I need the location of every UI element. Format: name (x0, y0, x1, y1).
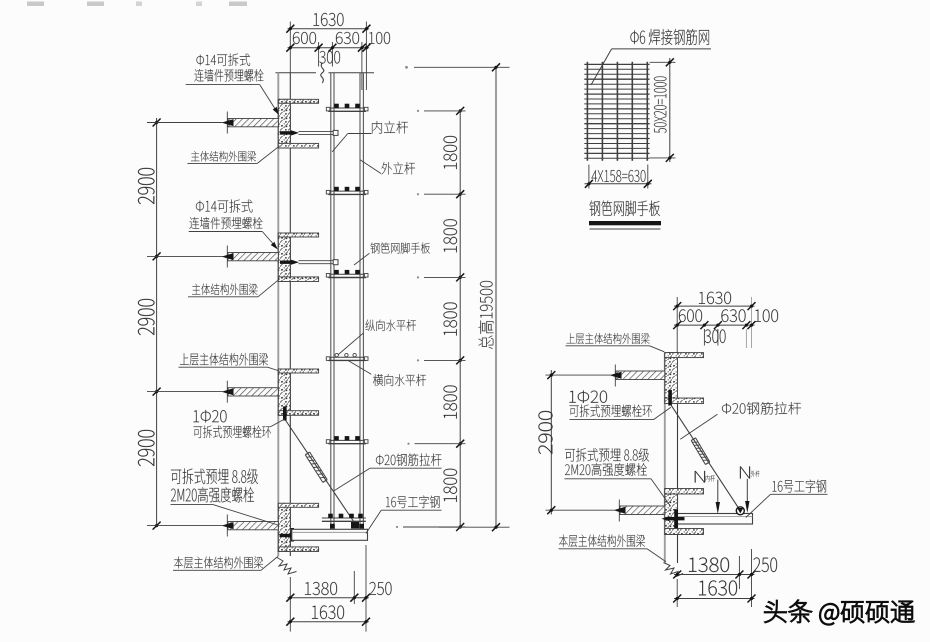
phi14 tie bolt level 2 (280, 261, 293, 264)
dim text 1630 bottom (312, 606, 344, 619)
label 16 I-beam (386, 496, 440, 508)
rd label upper beam (567, 333, 650, 344)
beam bottom flange level 1 (278, 143, 318, 148)
rd label 16 I-beam (772, 480, 826, 493)
right dim tick (456, 440, 464, 448)
label main beam L2 (192, 283, 257, 295)
beam block level 1 (278, 99, 290, 148)
rod anchor block (351, 522, 359, 529)
dim text 1800 #5 (444, 469, 457, 502)
right dim line 1800s (459, 111, 461, 527)
rd rod anchor (736, 507, 744, 515)
beam top flange level 1 (278, 99, 318, 103)
rd dim text 1380 (689, 558, 729, 572)
wall inner line (277, 73, 279, 557)
scaffold board row 5 (328, 439, 366, 441)
floor slab level 2 (228, 253, 278, 261)
label longitudinal ledger (366, 320, 417, 332)
right dim tick (456, 356, 464, 364)
dim text 250 left (370, 582, 392, 595)
rd label phi20 rod (722, 402, 801, 414)
label upper main beam (180, 353, 268, 365)
rd dim line 1380/250 (674, 574, 755, 576)
left dim tick (153, 119, 161, 127)
total height dim line (495, 67, 497, 527)
phi20 diagonal tie rod (286, 421, 356, 526)
dim text 1380 (305, 582, 337, 595)
floor slab level 4 (228, 522, 278, 530)
rd embedded ring (668, 390, 672, 406)
scaffold board row 2 (328, 190, 366, 192)
left dim tick (153, 252, 161, 260)
rd dim line 1630 top (674, 305, 755, 307)
rd dim text 250 (753, 558, 776, 572)
rd dim text 1630 top (699, 292, 731, 304)
right dim tick (456, 107, 464, 115)
right dim tick (456, 523, 464, 531)
label phi20 rod (376, 453, 442, 465)
label steel mesh board (371, 242, 430, 253)
rd wall lines (664, 353, 666, 564)
rd upper beam top flange (665, 353, 704, 358)
dim line 1380/250 (288, 597, 369, 599)
dim text 1800 #4 (444, 386, 457, 419)
floor slab level 3 (228, 388, 278, 396)
label phi14 removable L1 (197, 54, 251, 66)
dim text 2900 b (138, 299, 154, 335)
load arrow N inner (717, 480, 719, 503)
mesh title leader (612, 48, 711, 50)
dim text 50X20=1000 (654, 76, 666, 133)
rd dim text 300 (705, 330, 726, 343)
mesh caption (589, 201, 659, 216)
mesh right dim (650, 61, 676, 63)
label 1 phi20 ring (194, 410, 227, 423)
beam block level 4 (278, 503, 290, 551)
label inner pole (372, 121, 408, 133)
beam bottom flange level 4 (278, 547, 318, 552)
rd top dim ext lines (676, 297, 678, 353)
dim text 630 (336, 32, 359, 44)
rd left dim 2900 (550, 370, 552, 515)
rd upper slab (616, 371, 665, 380)
wall face line (289, 73, 291, 556)
wall break squiggle (277, 558, 297, 575)
label this floor beam (174, 557, 263, 569)
dim text 1800 #3 (444, 303, 457, 336)
bottom platform board on I-beam (322, 517, 366, 519)
label transverse ledger (373, 374, 426, 386)
beam top flange level 4 (278, 503, 318, 507)
M20 bolt to I-beam (280, 534, 292, 537)
scaffold board row 1 (328, 107, 366, 109)
left dim tick (153, 522, 161, 530)
rd dim line 1630 bottom (674, 598, 755, 600)
rd lower beam block (665, 489, 678, 535)
rd label this floor beam (559, 535, 645, 547)
top break line (276, 72, 317, 74)
rd dim line 600/300/630/100 (674, 324, 755, 326)
watermark toutiao (765, 600, 914, 625)
label phi14 removable L2 (196, 199, 252, 212)
rd lower slab (620, 506, 665, 515)
beam bottom flange level 2 (278, 277, 318, 282)
rd wall squiggle (664, 563, 684, 578)
dim line 600/300/630/100 (288, 47, 370, 49)
turnbuckle on rod (305, 455, 323, 483)
welded mesh grid (586, 62, 588, 161)
rd dim text 100 (755, 309, 778, 322)
caption underline (589, 221, 661, 225)
label main beam L1 (191, 151, 256, 162)
top dim extension lines (289, 22, 291, 73)
dim line 1630 bottom (288, 621, 369, 623)
rd label M20 bolts (565, 448, 649, 461)
pole base plates (330, 524, 335, 529)
rd dim text 2900 (538, 411, 552, 454)
dim text 300 (319, 51, 340, 63)
left dim line 2900 (156, 118, 158, 527)
rd diagonal rod (671, 405, 741, 511)
left dim tick (153, 388, 161, 396)
inner standing pole (330, 73, 332, 530)
dim text 1800 #2 (444, 219, 457, 252)
dim text 100 (369, 32, 390, 44)
16 I-beam (292, 529, 368, 540)
dim text 1800 #1 (444, 136, 457, 169)
dim text 4X158=630 (592, 170, 646, 182)
bare ledger row 4 (328, 356, 366, 358)
phi14 tie bolt level 1 (280, 131, 293, 134)
rd dim text 630 (721, 309, 745, 322)
label removable M20 bolts (171, 468, 258, 484)
load arrow N outer (746, 479, 748, 502)
rd label 1 phi20 (570, 390, 607, 403)
rd bottom dim ext lines (676, 579, 678, 607)
beam bottom flange level 3 (278, 411, 318, 416)
label outer pole (382, 162, 416, 174)
scaffold board row 3 (328, 273, 366, 275)
rd dim text 600 (679, 309, 702, 322)
outer standing pole (359, 73, 361, 530)
phi20 embedded ring (283, 407, 287, 421)
dim line 1630 top (288, 28, 370, 30)
dim text 2900 a (138, 168, 154, 204)
dim text 1630 top (314, 13, 344, 26)
beam top flange level 3 (278, 369, 318, 373)
mesh title phi6 welded mesh (630, 29, 708, 45)
rd M20 bolt (662, 516, 670, 521)
dim text 600 (293, 32, 316, 44)
floor slab level 1 (228, 119, 278, 127)
dim text 19500 (478, 281, 493, 349)
beam block level 2 (278, 233, 290, 282)
rd I-beam (678, 514, 753, 525)
mesh bottom dim (588, 165, 590, 189)
rd turnbuckle (691, 441, 705, 465)
dim text 2900 c (138, 430, 154, 466)
beam top flange level 2 (278, 233, 318, 237)
rd lower beam top flange (665, 489, 704, 495)
rd lower beam bottom flange (665, 529, 704, 535)
faint top edge marks (27, 2, 44, 7)
rd upper beam bottom flange (665, 398, 704, 404)
rd dim text 1630 bottom (699, 580, 737, 595)
bottom dim extension lines (289, 577, 291, 632)
beam block level 3 (278, 369, 290, 415)
right dim tick (456, 190, 464, 198)
right dim tick (456, 273, 464, 281)
rd upper beam block (665, 353, 678, 404)
